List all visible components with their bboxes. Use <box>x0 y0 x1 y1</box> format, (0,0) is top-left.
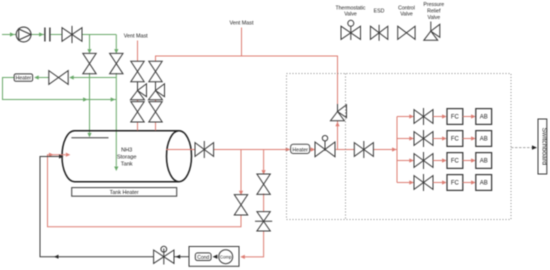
row 2 arrow into valve <box>409 136 414 140</box>
liquid level line <box>71 137 108 139</box>
svg-text:Heater: Heater <box>16 76 32 82</box>
svg-text:AB: AB <box>480 159 488 165</box>
tank heater box <box>72 188 177 197</box>
svg-text:Pressure: Pressure <box>423 2 444 8</box>
wire relief valve to main line <box>337 121 339 150</box>
wire V2 down <box>115 73 117 166</box>
valve on heater feed <box>49 71 68 85</box>
legend thermostatic valve symbol <box>341 20 361 40</box>
row 1 arrow into valve <box>409 114 414 118</box>
TANK <box>62 131 192 182</box>
row 2 wire FC to AB <box>463 138 475 140</box>
row 4 arrow into AB <box>471 180 476 184</box>
svg-text:AB: AB <box>480 115 488 121</box>
valve drop2 upper <box>257 174 270 194</box>
svg-text:ESD: ESD <box>374 9 385 15</box>
wire drop 1 from main line <box>240 150 242 191</box>
wire control valve to ESD valve <box>336 149 355 151</box>
dashed inner divider <box>345 74 347 220</box>
svg-text:FC: FC <box>451 181 460 187</box>
MAIN PROCESS LINE (red) <box>166 117 397 183</box>
valve column B upper <box>149 61 162 81</box>
thermostatic valve TV2 <box>154 246 174 264</box>
wire column A to tank <box>137 122 139 131</box>
svg-text:Relief: Relief <box>427 9 441 15</box>
arrow after return corner <box>49 153 54 157</box>
row 1 arrow into FC <box>442 114 447 118</box>
row 3 arrow into valve <box>409 158 414 162</box>
svg-text:Vent Mast: Vent Mast <box>230 21 254 27</box>
arrow into TV2 valve <box>176 255 181 259</box>
wire column B top to header <box>156 56 338 104</box>
GREEN SUPPLY CIRCUIT <box>2 35 116 167</box>
row 4 AB box <box>476 175 492 191</box>
wire supply inlet <box>2 34 16 36</box>
row 4 wire valve to FC <box>433 182 446 184</box>
svg-text:NH3: NH3 <box>121 148 132 154</box>
arrow into flange <box>39 32 44 36</box>
svg-text:Cond: Cond <box>197 255 209 261</box>
row 1 wire FC to AB <box>463 116 475 118</box>
wire vent mast 1 riser <box>137 41 139 62</box>
RETURN / COMPRESSOR LOOP <box>48 150 264 257</box>
wire vent mast 2 stub <box>241 28 243 57</box>
arrow into tank dip tube <box>114 167 118 172</box>
row 4 FC box <box>447 175 463 191</box>
switchboard <box>538 119 548 174</box>
row 1 ESD valve <box>414 108 433 125</box>
arrow into drop1 valve <box>239 191 243 196</box>
row 2 AB box <box>476 131 492 147</box>
wire drop 2 from main line <box>263 150 265 171</box>
wire heater outlet loop <box>3 78 117 100</box>
legend control valve symbol <box>398 26 415 39</box>
arrow on liquid return into tank <box>66 153 71 157</box>
wire heater to control valve <box>310 149 315 151</box>
row 3 arrow into AB <box>471 158 476 162</box>
row 1 arrow into AB <box>471 114 476 118</box>
Cond unit <box>195 253 211 261</box>
arrow into switchboard <box>532 145 537 149</box>
svg-text:Thermostatic: Thermostatic <box>336 5 366 11</box>
valve V2 <box>110 53 123 73</box>
gate valve at tank outlet <box>195 141 214 158</box>
row 3 AB box <box>476 153 492 169</box>
wire branch down to valve V1 <box>89 35 91 50</box>
row 1 FC box <box>447 109 463 125</box>
svg-text:Valve: Valve <box>428 15 441 21</box>
wire column A internals <box>137 100 139 102</box>
arrow into heater box <box>34 75 39 79</box>
arrow comp to cond <box>213 255 218 259</box>
row 1 wire manifold to valve <box>397 116 414 118</box>
arrow into pump <box>10 32 15 36</box>
row 3 wire valve to FC <box>433 160 446 162</box>
row 1 wire valve to FC <box>433 116 446 118</box>
wire valve to branches <box>82 34 116 36</box>
valve V1 <box>83 53 96 73</box>
arrow on return line 1 <box>83 97 88 101</box>
valve drop1 <box>234 195 247 215</box>
compressor <box>219 250 233 264</box>
wire column B to tank <box>155 122 157 131</box>
row 3 arrow into FC <box>442 158 447 162</box>
wire manifold header <box>396 117 398 183</box>
wire skid to switchboard <box>511 147 535 149</box>
wire flange to valve <box>51 34 62 36</box>
ESD valve E1 <box>354 141 373 158</box>
arrow into manifold <box>392 147 397 151</box>
wire pump to flange <box>31 34 44 36</box>
arrow into condenser unit <box>240 255 245 259</box>
row 2 ESD valve <box>414 130 433 147</box>
wire tank outlet <box>166 149 195 151</box>
heater box H2 <box>291 144 310 153</box>
relief valve column A <box>131 84 147 100</box>
arrow down into V1 <box>87 49 91 54</box>
pump P1 <box>16 27 31 42</box>
svg-text:Storage: Storage <box>117 155 137 161</box>
row 3 wire FC to AB <box>463 160 475 162</box>
tank label <box>117 148 137 168</box>
arrow down into V2 <box>114 49 118 54</box>
svg-text:Valve: Valve <box>344 12 357 18</box>
svg-text:Comp: Comp <box>220 255 232 260</box>
dashed skid boundary <box>287 74 512 220</box>
wire drop 2 to condenser <box>242 231 264 257</box>
LEGEND <box>336 2 445 21</box>
wire PRV stem <box>337 104 339 112</box>
VENT SYSTEM (red) <box>138 28 338 150</box>
row 3 ESD valve <box>414 152 433 169</box>
svg-text:Tank Heater: Tank Heater <box>110 190 139 196</box>
gate valve on supply <box>62 26 82 43</box>
arrow on return line 2 <box>111 97 116 101</box>
wire branch down to valve V2 <box>115 35 117 50</box>
arrow into heater valve <box>69 75 74 79</box>
row 4 arrow into FC <box>442 180 447 184</box>
row 2 FC box <box>447 131 463 147</box>
row 2 arrow into FC <box>442 136 447 140</box>
row 4 wire FC to AB <box>463 182 475 184</box>
vessel NH3 storage tank shell <box>62 131 179 182</box>
svg-text:FC: FC <box>451 159 460 165</box>
svg-text:Vent Mast: Vent Mast <box>124 34 148 40</box>
svg-text:FC: FC <box>451 137 460 143</box>
row 4 wire manifold to valve <box>397 182 414 184</box>
wire condenser to valve <box>174 256 189 258</box>
row 3 wire manifold to valve <box>397 160 414 162</box>
legend pressure relief valve symbol <box>424 22 440 41</box>
vessel right head ellipse <box>167 131 192 182</box>
valve column B lower <box>149 102 162 122</box>
arrow after heater H2 <box>311 147 316 151</box>
arrow into drop2 valve <box>262 170 266 175</box>
arrow into tank nozzle 1 <box>87 133 91 138</box>
relief valve PRV in skid <box>331 105 347 121</box>
wire heater feed line <box>70 77 116 79</box>
wire heater valve to heater <box>35 77 48 79</box>
heater box H1 <box>14 74 32 82</box>
wire column B internals <box>155 100 157 102</box>
valve column A lower <box>131 102 144 122</box>
arrow into tank left nozzle <box>59 154 64 158</box>
wire ESD valve to manifold <box>374 149 398 151</box>
svg-text:Control: Control <box>398 5 415 11</box>
wire drop 2 between valves <box>263 194 265 212</box>
svg-text:Switchboard: Switchboard <box>541 128 548 166</box>
svg-text:Tank: Tank <box>121 162 133 168</box>
arrow on black return <box>54 255 59 259</box>
row 2 wire valve to FC <box>433 138 446 140</box>
arrow into heater H2 <box>286 147 291 151</box>
gate valve drop2 lower <box>255 212 272 231</box>
legend ESD valve symbol <box>370 25 387 41</box>
row 4 ESD valve <box>414 174 433 191</box>
svg-text:AB: AB <box>480 137 488 143</box>
svg-text:AB: AB <box>480 181 488 187</box>
flange coupling <box>45 28 50 42</box>
relief valve column B <box>149 84 165 100</box>
row 1 AB box <box>476 109 492 125</box>
svg-text:Heater: Heater <box>292 148 308 154</box>
row 2 arrow into AB <box>471 136 476 140</box>
svg-text:FC: FC <box>451 115 460 121</box>
row 2 wire manifold to valve <box>397 138 414 140</box>
BLACK CONDENSATE RETURN <box>40 157 189 257</box>
wire drop 1 valve to return <box>48 155 242 227</box>
condenser/compressor package <box>189 247 239 267</box>
row 3 FC box <box>447 153 463 169</box>
wire valve to tank riser <box>40 157 154 257</box>
wire V1 to tank <box>89 73 91 133</box>
thermostatic valve TV1 <box>315 136 335 157</box>
svg-text:Valve: Valve <box>400 12 413 18</box>
row 4 arrow into valve <box>409 180 414 184</box>
valve column A upper <box>131 61 144 81</box>
arrow up into PRV <box>335 122 339 127</box>
wire valve to heater skid <box>214 149 290 151</box>
